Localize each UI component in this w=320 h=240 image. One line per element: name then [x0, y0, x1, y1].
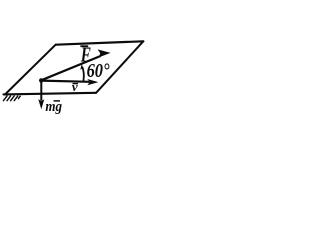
vector mg arrowhead — [38, 99, 44, 109]
svg-text:v: v — [72, 79, 78, 94]
vector F arrowhead — [98, 49, 111, 57]
vector mg shaft — [40, 81, 42, 101]
plane right edge — [96, 41, 143, 93]
angle arc arrowhead — [80, 64, 84, 70]
node: application point — [39, 78, 43, 82]
label 60 degrees — [87, 60, 111, 82]
plane (parallelogram) top edge — [56, 41, 143, 44]
ground hatching — [3, 96, 20, 101]
label F (with bar) — [80, 43, 91, 66]
vector F shaft — [41, 56, 100, 80]
angle arc 60 degrees — [82, 67, 84, 81]
plane bottom edge / ground line — [4, 93, 97, 95]
plane left edge — [6, 45, 56, 94]
label mg (with bar over g) — [45, 98, 62, 114]
vector v shaft — [41, 81, 89, 82]
vector v arrowhead — [87, 79, 98, 85]
svg-text:60°: 60° — [87, 60, 111, 82]
